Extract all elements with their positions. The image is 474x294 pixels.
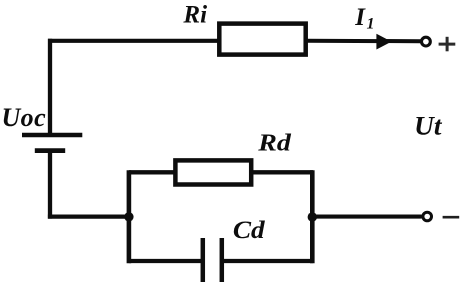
node A junction dot (left of RC pair): [124, 212, 133, 221]
label − (minus sign): [443, 216, 460, 219]
wire top rail from battery node to resistor Ri: [48, 39, 221, 43]
wire bottom rail from battery to node A: [48, 215, 129, 219]
wire RC loop bottom-right segment: [222, 259, 313, 263]
wire from Ri to positive terminal: [305, 39, 422, 43]
wire RC loop top-right segment: [251, 170, 313, 174]
capacitor Cd left plate: [201, 238, 206, 282]
wire RC loop right vertical: [310, 170, 315, 263]
resistor Rd: [175, 160, 251, 184]
battery Uoc negative plate (short): [35, 148, 65, 153]
wire RC loop left vertical: [127, 170, 132, 263]
wire RC loop bottom-left segment: [129, 259, 203, 263]
wire node B to negative terminal: [312, 215, 422, 219]
svg-text:Uoc: Uoc: [2, 103, 47, 132]
battery Uoc positive plate (long): [22, 133, 82, 138]
svg-text:Cd: Cd: [233, 217, 265, 244]
terminal node − (negative), open circle: [423, 212, 432, 221]
current arrow I1 head: [376, 34, 391, 50]
label + (plus sign): [439, 37, 456, 52]
svg-text:Ut: Ut: [414, 111, 442, 140]
capacitor Cd right plate: [220, 238, 225, 282]
terminal node + (positive), open circle: [422, 37, 431, 46]
svg-text:Ri: Ri: [182, 2, 207, 29]
wire left vertical from top rail down to battery: [48, 39, 52, 136]
wire from battery negative plate down to bottom rail: [48, 151, 52, 219]
resistor Ri: [219, 24, 305, 55]
wire RC loop top-left segment: [129, 170, 176, 174]
node B junction dot (right of RC pair): [308, 212, 317, 221]
svg-text:Rd: Rd: [257, 130, 292, 157]
